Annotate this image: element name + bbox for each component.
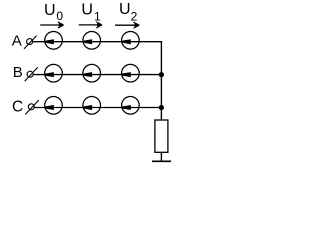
- voltage arrow U0: [40, 22, 63, 28]
- svg-text:A: A: [12, 33, 22, 50]
- wire phase B: [33, 74, 162, 76]
- source U0 phase A: [45, 32, 63, 50]
- voltage arrow U1: [79, 22, 102, 28]
- source U1 phase B: [83, 64, 101, 82]
- source U1 phase A: [83, 32, 101, 50]
- svg-text:C: C: [12, 98, 23, 115]
- source U1 phase C: [83, 97, 101, 115]
- label U0: [44, 2, 63, 23]
- svg-text:2: 2: [131, 10, 138, 24]
- terminal B: [25, 67, 38, 81]
- svg-text:1: 1: [94, 10, 101, 24]
- label U2: [119, 1, 138, 24]
- resistor R: [155, 120, 168, 152]
- svg-text:U: U: [44, 2, 56, 19]
- svg-text:0: 0: [56, 9, 63, 23]
- source U2 phase C: [122, 97, 140, 115]
- junction node C: [159, 105, 164, 110]
- source U0 phase C: [45, 97, 63, 115]
- ground: [152, 160, 171, 162]
- bus wire (right vertical): [160, 41, 162, 120]
- source U2 phase B: [122, 64, 140, 82]
- svg-text:B: B: [13, 64, 23, 81]
- wire phase A: [33, 41, 163, 43]
- wire phase C: [34, 107, 162, 109]
- wire resistor to ground: [160, 152, 162, 161]
- junction node B: [159, 72, 164, 77]
- label U1: [81, 1, 101, 23]
- source U0 phase B: [45, 64, 63, 82]
- svg-text:U: U: [81, 1, 93, 18]
- terminal C: [25, 100, 39, 114]
- voltage arrow U2: [115, 22, 139, 28]
- source U2 phase A: [122, 32, 140, 50]
- terminal A: [24, 36, 37, 49]
- svg-text:U: U: [119, 1, 131, 18]
